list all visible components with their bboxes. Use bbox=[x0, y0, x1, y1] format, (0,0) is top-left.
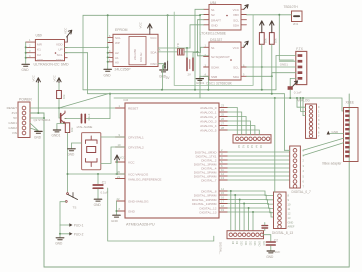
ground GND eeprom pad bbox=[159, 70, 167, 78]
wire avcc line bbox=[68, 173, 126, 175]
wire rtc snb to bus bbox=[204, 76, 209, 90]
svg-text:GND: GND bbox=[55, 242, 63, 246]
svg-text:PUD-1: PUD-1 bbox=[74, 224, 84, 228]
svg-text:DS1337: DS1337 bbox=[210, 38, 222, 42]
svg-text:GND: GND bbox=[67, 153, 75, 157]
svg-text:VANLOG_REFERENCE: VANLOG_REFERENCE bbox=[128, 177, 161, 181]
pin stubs U$4 bbox=[204, 9, 247, 24]
svg-text:A0: A0 bbox=[115, 60, 119, 64]
svg-text:GND2: GND2 bbox=[8, 126, 17, 130]
wire xbee rx bbox=[303, 138, 344, 150]
svg-text:10k: 10k bbox=[70, 127, 74, 132]
svg-text:RESET: RESET bbox=[128, 107, 138, 111]
svg-text:24LC256P: 24LC256P bbox=[115, 68, 132, 72]
wire gnd rail U$9 bbox=[25, 42, 27, 63]
pin names ATMEGA right bbox=[192, 106, 217, 214]
wires digital0-7 to header bbox=[228, 152, 290, 180]
SECTION_HEADERS bbox=[219, 94, 311, 259]
eeprom IC box bbox=[113, 28, 158, 72]
wire battery minus to bus bbox=[163, 66, 166, 90]
svg-text:DIGITAL_7: DIGITAL_7 bbox=[201, 178, 217, 182]
svg-text:24: 24 bbox=[221, 108, 224, 112]
wire to flag2 bbox=[60, 225, 69, 237]
connector XBEE bbox=[322, 100, 358, 165]
svg-text:26: 26 bbox=[221, 117, 224, 121]
junction dots buses bbox=[161, 89, 276, 99]
wire U$4 p4 to scl seg bbox=[190, 25, 204, 48]
supply VCC arrow DS1337 bbox=[244, 41, 248, 47]
svg-text:PAD AU: PAD AU bbox=[139, 53, 143, 62]
svg-text:SCL: SCL bbox=[115, 36, 121, 40]
svg-text:GND1: GND1 bbox=[52, 134, 61, 138]
wire U$4 p2 top net bbox=[200, 15, 204, 99]
wires digital8-13 to header bbox=[228, 191, 274, 217]
svg-text:14: 14 bbox=[221, 187, 224, 191]
SECTION_LEFT bbox=[7, 74, 350, 267]
svg-text:DIGITAL_8_13: DIGITAL_8_13 bbox=[272, 231, 293, 235]
junction dot sda pullup bbox=[271, 75, 273, 77]
capacitor C4 100n bbox=[65, 113, 110, 129]
svg-text:16: 16 bbox=[221, 196, 224, 200]
svg-text:GND1: GND1 bbox=[196, 81, 205, 85]
svg-text:GND: GND bbox=[332, 130, 340, 134]
wire reset diagonal to bus bbox=[59, 94, 108, 108]
wire crystal right to rtc bbox=[193, 47, 204, 57]
svg-text:SCHK: SCHK bbox=[211, 66, 219, 70]
svg-text:VCC: VCC bbox=[139, 21, 143, 28]
svg-text:DIGITAL_9PWM: DIGITAL_9PWM bbox=[194, 193, 217, 197]
ground GND c2 bbox=[266, 251, 274, 259]
svg-text:GND: GND bbox=[211, 24, 219, 28]
net flag PUD-1 bbox=[69, 223, 83, 227]
SECTION_RTC bbox=[163, 1, 303, 98]
svg-text:GND1: GND1 bbox=[8, 121, 17, 125]
pin stubs U$9 right bbox=[65, 42, 68, 58]
svg-text:S1: S1 bbox=[211, 8, 215, 12]
svg-text:VCC-VANLOG: VCC-VANLOG bbox=[128, 172, 149, 176]
junction dots avcc bbox=[67, 173, 100, 175]
wire power gnd diagonals bbox=[30, 123, 38, 131]
wire gnd net top bbox=[83, 15, 200, 90]
svg-text:TBD10TH: TBD10TH bbox=[284, 5, 299, 9]
wire gnd rail bottom bbox=[108, 188, 214, 241]
wire bus L3 vcc bbox=[114, 98, 344, 111]
wire bus SDA L2 bbox=[88, 93, 285, 95]
svg-text:POWER: POWER bbox=[19, 98, 32, 102]
ground GND flag bbox=[55, 238, 64, 246]
junction dots U$9 rail bbox=[25, 46, 27, 58]
wire reset net bbox=[30, 107, 125, 109]
supply VCC arrow U$4 bbox=[244, 5, 248, 10]
connector FTDI F.TX bbox=[296, 47, 307, 84]
svg-text:CRYSTAL2: CRYSTAL2 bbox=[128, 146, 144, 150]
wire mcu gnd pins bbox=[116, 201, 118, 215]
supply VCC arrow A bbox=[32, 74, 41, 114]
svg-text:CRYSTAL1: CRYSTAL1 bbox=[128, 136, 144, 140]
connector H1 analog strip bbox=[233, 135, 271, 143]
labels under H1 bbox=[237, 145, 262, 149]
resistor R1 pullup scl bbox=[259, 21, 267, 90]
svg-text:PAD: PAD bbox=[151, 62, 158, 66]
svg-text:VCC: VCC bbox=[150, 36, 157, 40]
wire xbee tx bbox=[303, 143, 344, 156]
wire crystal gnd bbox=[72, 143, 82, 148]
junction dots eeprom rail bbox=[107, 52, 109, 63]
ground GND c1 bbox=[94, 199, 102, 207]
svg-text:ULTRASON-I2C SMD: ULTRASON-I2C SMD bbox=[34, 63, 69, 67]
svg-text:SDA: SDA bbox=[233, 24, 239, 28]
svg-text:C1: C1 bbox=[102, 181, 106, 185]
svg-text:18: 18 bbox=[221, 204, 224, 208]
svg-text:17: 17 bbox=[221, 200, 224, 204]
svg-text:DIGITAL_13: DIGITAL_13 bbox=[200, 210, 217, 214]
wire SDA jumper to rtc bbox=[184, 52, 209, 56]
svg-text:GND: GND bbox=[258, 241, 261, 247]
svg-text:10k: 10k bbox=[274, 38, 278, 43]
svg-text:VCC: VCC bbox=[32, 74, 36, 81]
ground GND crystal bbox=[67, 149, 75, 157]
svg-text:F.TX: F.TX bbox=[296, 47, 303, 51]
resistor R3 10k bbox=[57, 91, 66, 109]
pin stubs ATMEGA right analog bbox=[219, 108, 228, 131]
svg-text:28: 28 bbox=[221, 126, 224, 130]
wire r4 to switch bbox=[67, 133, 69, 193]
svg-text:ANALOG_2: ANALOG_2 bbox=[200, 115, 217, 119]
svg-text:15: 15 bbox=[221, 191, 224, 195]
wires analog pins to H1 bbox=[228, 108, 260, 135]
wire 5v stub bbox=[30, 117, 44, 119]
svg-text:VCC: VCC bbox=[120, 156, 126, 160]
SECTION_TOPLEFT bbox=[22, 27, 109, 94]
svg-text:XBee adapter: XBee adapter bbox=[322, 162, 342, 166]
svg-text:12: 12 bbox=[221, 172, 224, 176]
SECTION_RIGHT bbox=[246, 47, 358, 165]
svg-text:ARF: ARF bbox=[262, 241, 265, 246]
crystal Y2 32khz bbox=[187, 58, 193, 77]
svg-text:D12: D12 bbox=[249, 241, 252, 246]
svg-text:XBV: XBV bbox=[233, 13, 239, 17]
ground GND1 rtc bbox=[196, 79, 203, 81]
svg-text:IC6: IC6 bbox=[124, 98, 129, 102]
svg-text:2N1: 2N1 bbox=[293, 22, 299, 26]
svg-text:WP: WP bbox=[115, 41, 120, 45]
labels under H2 bbox=[231, 241, 265, 247]
junction dot battery net bbox=[167, 14, 169, 16]
svg-text:PUD-2: PUD-2 bbox=[74, 232, 84, 236]
supply VCC arrow U$9 bbox=[63, 27, 71, 42]
junction dot gnd rail top bbox=[107, 14, 109, 16]
svg-text:SDN: SDN bbox=[56, 58, 63, 62]
svg-text:ANALOG: ANALOG bbox=[297, 99, 311, 103]
wire rtc sda to pullup bbox=[246, 75, 271, 77]
svg-text:0.1uF: 0.1uF bbox=[294, 91, 302, 95]
svg-text:SCL: SCL bbox=[57, 53, 63, 57]
pin numbers analog bbox=[221, 104, 224, 131]
capacitor ftdi 0.1uF bbox=[288, 78, 296, 99]
pin stubs U$9 left bbox=[26, 42, 36, 58]
wire SCL to rail bbox=[65, 46, 108, 48]
svg-text:VSS: VSS bbox=[37, 58, 43, 62]
svg-text:VCC: VCC bbox=[63, 27, 67, 34]
capacitor C2 bbox=[263, 235, 280, 255]
svg-text:SCL: SCL bbox=[233, 66, 239, 70]
junction dot p2 bbox=[199, 14, 201, 16]
svg-text:GND: GND bbox=[22, 68, 30, 72]
svg-text:22: 22 bbox=[117, 197, 120, 201]
pin stubs ATMEGA right digital bbox=[219, 152, 228, 212]
SECTION_EEPROM bbox=[83, 14, 209, 90]
svg-text:ANALOG_5: ANALOG_5 bbox=[200, 128, 217, 132]
wire bus SCL L1 bbox=[83, 89, 276, 91]
wire crystal left up bbox=[186, 48, 188, 58]
svg-text:19: 19 bbox=[221, 208, 224, 212]
svg-text:GND: GND bbox=[266, 255, 274, 259]
ground GND mcu bbox=[111, 215, 120, 223]
svg-text:GND: GND bbox=[128, 210, 136, 214]
pin numbers eeprom bbox=[109, 35, 161, 62]
pin numbers digital bbox=[221, 148, 224, 212]
svg-text:S1: S1 bbox=[211, 46, 215, 50]
svg-text:SNB: SNB bbox=[211, 75, 217, 79]
svg-text:VCC: VCC bbox=[128, 161, 135, 165]
junction dot c4 bbox=[109, 93, 111, 95]
svg-text:ANALOG_0: ANALOG_0 bbox=[200, 106, 217, 110]
junction dots risers bbox=[230, 190, 254, 213]
svg-text:DIGITAL_: DIGITAL_ bbox=[219, 242, 223, 255]
wire battery plus from gnd net bbox=[167, 15, 169, 61]
ultrasonic IC U$9 bbox=[34, 34, 69, 67]
svg-text:K2: K2 bbox=[37, 53, 41, 57]
svg-text:EPROM: EPROM bbox=[115, 28, 128, 32]
svg-text:Q2 STN0214: Q2 STN0214 bbox=[34, 118, 51, 122]
junction dot flag2 bbox=[59, 233, 61, 235]
wire 3v3 power loop bbox=[30, 94, 349, 267]
svg-text:VDD: VDD bbox=[56, 42, 63, 46]
svg-text:K1: K1 bbox=[37, 48, 41, 52]
wire eeprom gnd rail bbox=[107, 15, 109, 69]
svg-text:SDA: SDA bbox=[150, 50, 156, 54]
microcontroller IC5 ATMEGA328 box bbox=[124, 98, 220, 226]
svg-text:24LC256: 24LC256 bbox=[133, 49, 137, 60]
svg-text:GND: GND bbox=[111, 219, 119, 223]
junction dot gnd pins bbox=[116, 210, 118, 212]
pin stubs ATMEGA left bbox=[116, 108, 126, 211]
svg-text:VCC: VCC bbox=[52, 74, 56, 81]
svg-text:25: 25 bbox=[221, 113, 224, 117]
svg-text:D13: D13 bbox=[253, 241, 256, 246]
wire switch to flag1 bbox=[60, 202, 69, 225]
supply VCC arrow eeprom bbox=[139, 21, 153, 34]
ground GND1 q2 bbox=[52, 124, 66, 138]
svg-text:VIN: VIN bbox=[12, 131, 17, 135]
wire ftdi p4 sda jog bbox=[272, 73, 296, 77]
svg-text:LTC4301LCMS8E: LTC4301LCMS8E bbox=[200, 32, 227, 36]
svg-text:3V3: 3V3 bbox=[11, 111, 17, 115]
svg-text:GND: GND bbox=[94, 203, 102, 207]
wire U$4 p3 to sda bbox=[198, 20, 204, 52]
wire SDA out bbox=[158, 51, 178, 53]
wire ftdi p2 stub bbox=[279, 60, 296, 62]
crystal oscillator assembly bbox=[82, 133, 101, 170]
svg-text:VCC: VCC bbox=[233, 8, 240, 12]
svg-text:10: 10 bbox=[118, 143, 121, 147]
svg-text:RESET: RESET bbox=[7, 106, 17, 110]
pin numbers ds1337 bbox=[205, 45, 246, 77]
svg-text:MR: MR bbox=[37, 42, 43, 46]
wire PAD to gnd bbox=[158, 64, 164, 70]
pin names ATMEGA left bbox=[128, 107, 161, 214]
ground GND2 bbox=[22, 64, 30, 72]
svg-text:10k: 10k bbox=[62, 94, 66, 99]
battery BT1 3V bbox=[165, 61, 170, 80]
wire tbd branch to ftdi bbox=[279, 15, 293, 60]
svg-text:DRAFT: DRAFT bbox=[211, 18, 221, 22]
svg-text:sTAL-NAME: sTAL-NAME bbox=[77, 125, 93, 129]
capacitor C1 bbox=[93, 174, 108, 199]
junction dots analog feeds bbox=[296, 97, 304, 99]
wire SDA to bus bbox=[65, 53, 88, 94]
wire u4 to tbd bbox=[246, 14, 291, 16]
switch TS reset bbox=[65, 193, 77, 210]
pin stubs DS1337 bbox=[204, 47, 247, 76]
svg-text:UP: UP bbox=[58, 48, 62, 52]
wire vert feeder left bbox=[274, 98, 276, 192]
solder jumper SJ1 bbox=[176, 43, 184, 55]
wire U$4 p1 to bus bbox=[195, 9, 204, 90]
junction dot 5v bbox=[43, 117, 45, 119]
svg-text:DIGITAL_0_7: DIGITAL_0_7 bbox=[292, 190, 311, 194]
resistor R2 pullup sda bbox=[269, 21, 277, 94]
svg-text:0.1uF: 0.1uF bbox=[87, 113, 91, 120]
junction dot crystal net bbox=[186, 47, 188, 49]
wire vert feeder right bbox=[284, 94, 289, 151]
svg-text:D10: D10 bbox=[240, 241, 243, 246]
junction dot scl rail bbox=[107, 46, 109, 48]
svg-text:ANALOG_4: ANALOG_4 bbox=[200, 124, 217, 128]
svg-text:TS: TS bbox=[73, 205, 77, 209]
junction dot bus l1 bbox=[109, 93, 111, 95]
svg-text:AREF: AREF bbox=[288, 225, 295, 229]
pin stubs eeprom left bbox=[108, 38, 113, 62]
svg-text:13: 13 bbox=[221, 176, 224, 180]
wires analog feeds bbox=[297, 98, 306, 116]
supply VCC arrow ftdi bbox=[293, 81, 302, 95]
svg-text:ANALOG_1: ANALOG_1 bbox=[200, 110, 217, 114]
connector ANALOG bbox=[297, 99, 321, 139]
connector DIGITAL_8_13 bbox=[272, 192, 295, 235]
svg-text:U$4: U$4 bbox=[210, 1, 216, 5]
frame rtc section bbox=[174, 12, 253, 85]
capacitor aref small bbox=[262, 223, 268, 231]
junction dot p3 sda bbox=[197, 51, 199, 53]
svg-text:ATMEGA328-PU: ATMEGA328-PU bbox=[126, 222, 155, 226]
svg-text:A2: A2 bbox=[115, 51, 119, 55]
risers from H2 bbox=[231, 191, 253, 231]
connector H2 bottom strip bbox=[227, 231, 264, 239]
SECTION_MCU bbox=[67, 76, 344, 241]
svg-text:TD: TD bbox=[176, 43, 180, 47]
ground GND power bbox=[34, 131, 42, 139]
connector DIGITAL_0_7 bbox=[290, 146, 311, 194]
svg-text:SDA: SDA bbox=[233, 75, 239, 79]
ground GND eeprom left bbox=[104, 69, 112, 77]
junction dot reset node bbox=[58, 107, 60, 109]
rtc IC DS1337 box bbox=[196, 38, 241, 85]
thermal sensor TBD10TH bbox=[284, 5, 303, 26]
resistor R4 bbox=[65, 123, 74, 133]
net flag PUD-2 bbox=[69, 232, 83, 236]
svg-text:GND: GND bbox=[34, 136, 42, 140]
wire crystal to xtal2 bbox=[101, 147, 125, 163]
svg-text:GND-VANLOG: GND-VANLOG bbox=[128, 200, 149, 204]
svg-text:GND: GND bbox=[288, 221, 294, 225]
svg-text:23: 23 bbox=[221, 104, 224, 108]
svg-text:C2: C2 bbox=[274, 239, 278, 243]
pin numbers U$9 left bbox=[29, 38, 31, 58]
wire rtc p4 gnd bbox=[200, 76, 204, 78]
svg-text:A1: A1 bbox=[115, 56, 119, 60]
wire scl right segment bbox=[158, 47, 190, 49]
svg-text:SCL: SCL bbox=[233, 18, 239, 22]
svg-text:0.1uF: 0.1uF bbox=[101, 190, 109, 194]
svg-text:2V: 2V bbox=[188, 73, 192, 77]
svg-text:D11: D11 bbox=[244, 241, 247, 246]
svg-text:GND: GND bbox=[104, 74, 112, 78]
svg-text:27: 27 bbox=[221, 122, 224, 126]
IC U$4 box bbox=[200, 1, 242, 36]
svg-text:XBEE: XBEE bbox=[346, 100, 355, 104]
connector POWER bbox=[7, 98, 33, 138]
svg-text:U$9: U$9 bbox=[36, 34, 42, 38]
svg-text:S2: S2 bbox=[211, 13, 215, 17]
svg-text:10k: 10k bbox=[264, 38, 268, 43]
wire c4 riser bbox=[109, 94, 111, 119]
svg-text:S2 SQW/OUT: S2 SQW/OUT bbox=[211, 55, 230, 59]
junction dot scl pullup bbox=[261, 66, 263, 68]
supply VCC arrow mcu bbox=[115, 155, 126, 175]
wire crystal to xtal1 bbox=[101, 136, 125, 138]
net flag GND xbee bbox=[327, 130, 344, 135]
wire ftdi p1 from bus bbox=[276, 56, 296, 90]
svg-text:21: 21 bbox=[117, 175, 120, 179]
svg-text:ANALOG_3: ANALOG_3 bbox=[200, 119, 217, 123]
supply VCC arrow B bbox=[52, 74, 61, 90]
svg-text:DIGITAL_11PWM: DIGITAL_11PWM bbox=[192, 202, 217, 206]
junction dot tbd bbox=[278, 14, 280, 16]
svg-text:VCC: VCC bbox=[233, 46, 240, 50]
transistor Q2 bbox=[34, 108, 67, 124]
pin numbers ATMEGA left bbox=[117, 104, 121, 211]
wire ftdi p3 scl bbox=[246, 66, 295, 68]
svg-text:GND1: GND1 bbox=[280, 63, 288, 67]
